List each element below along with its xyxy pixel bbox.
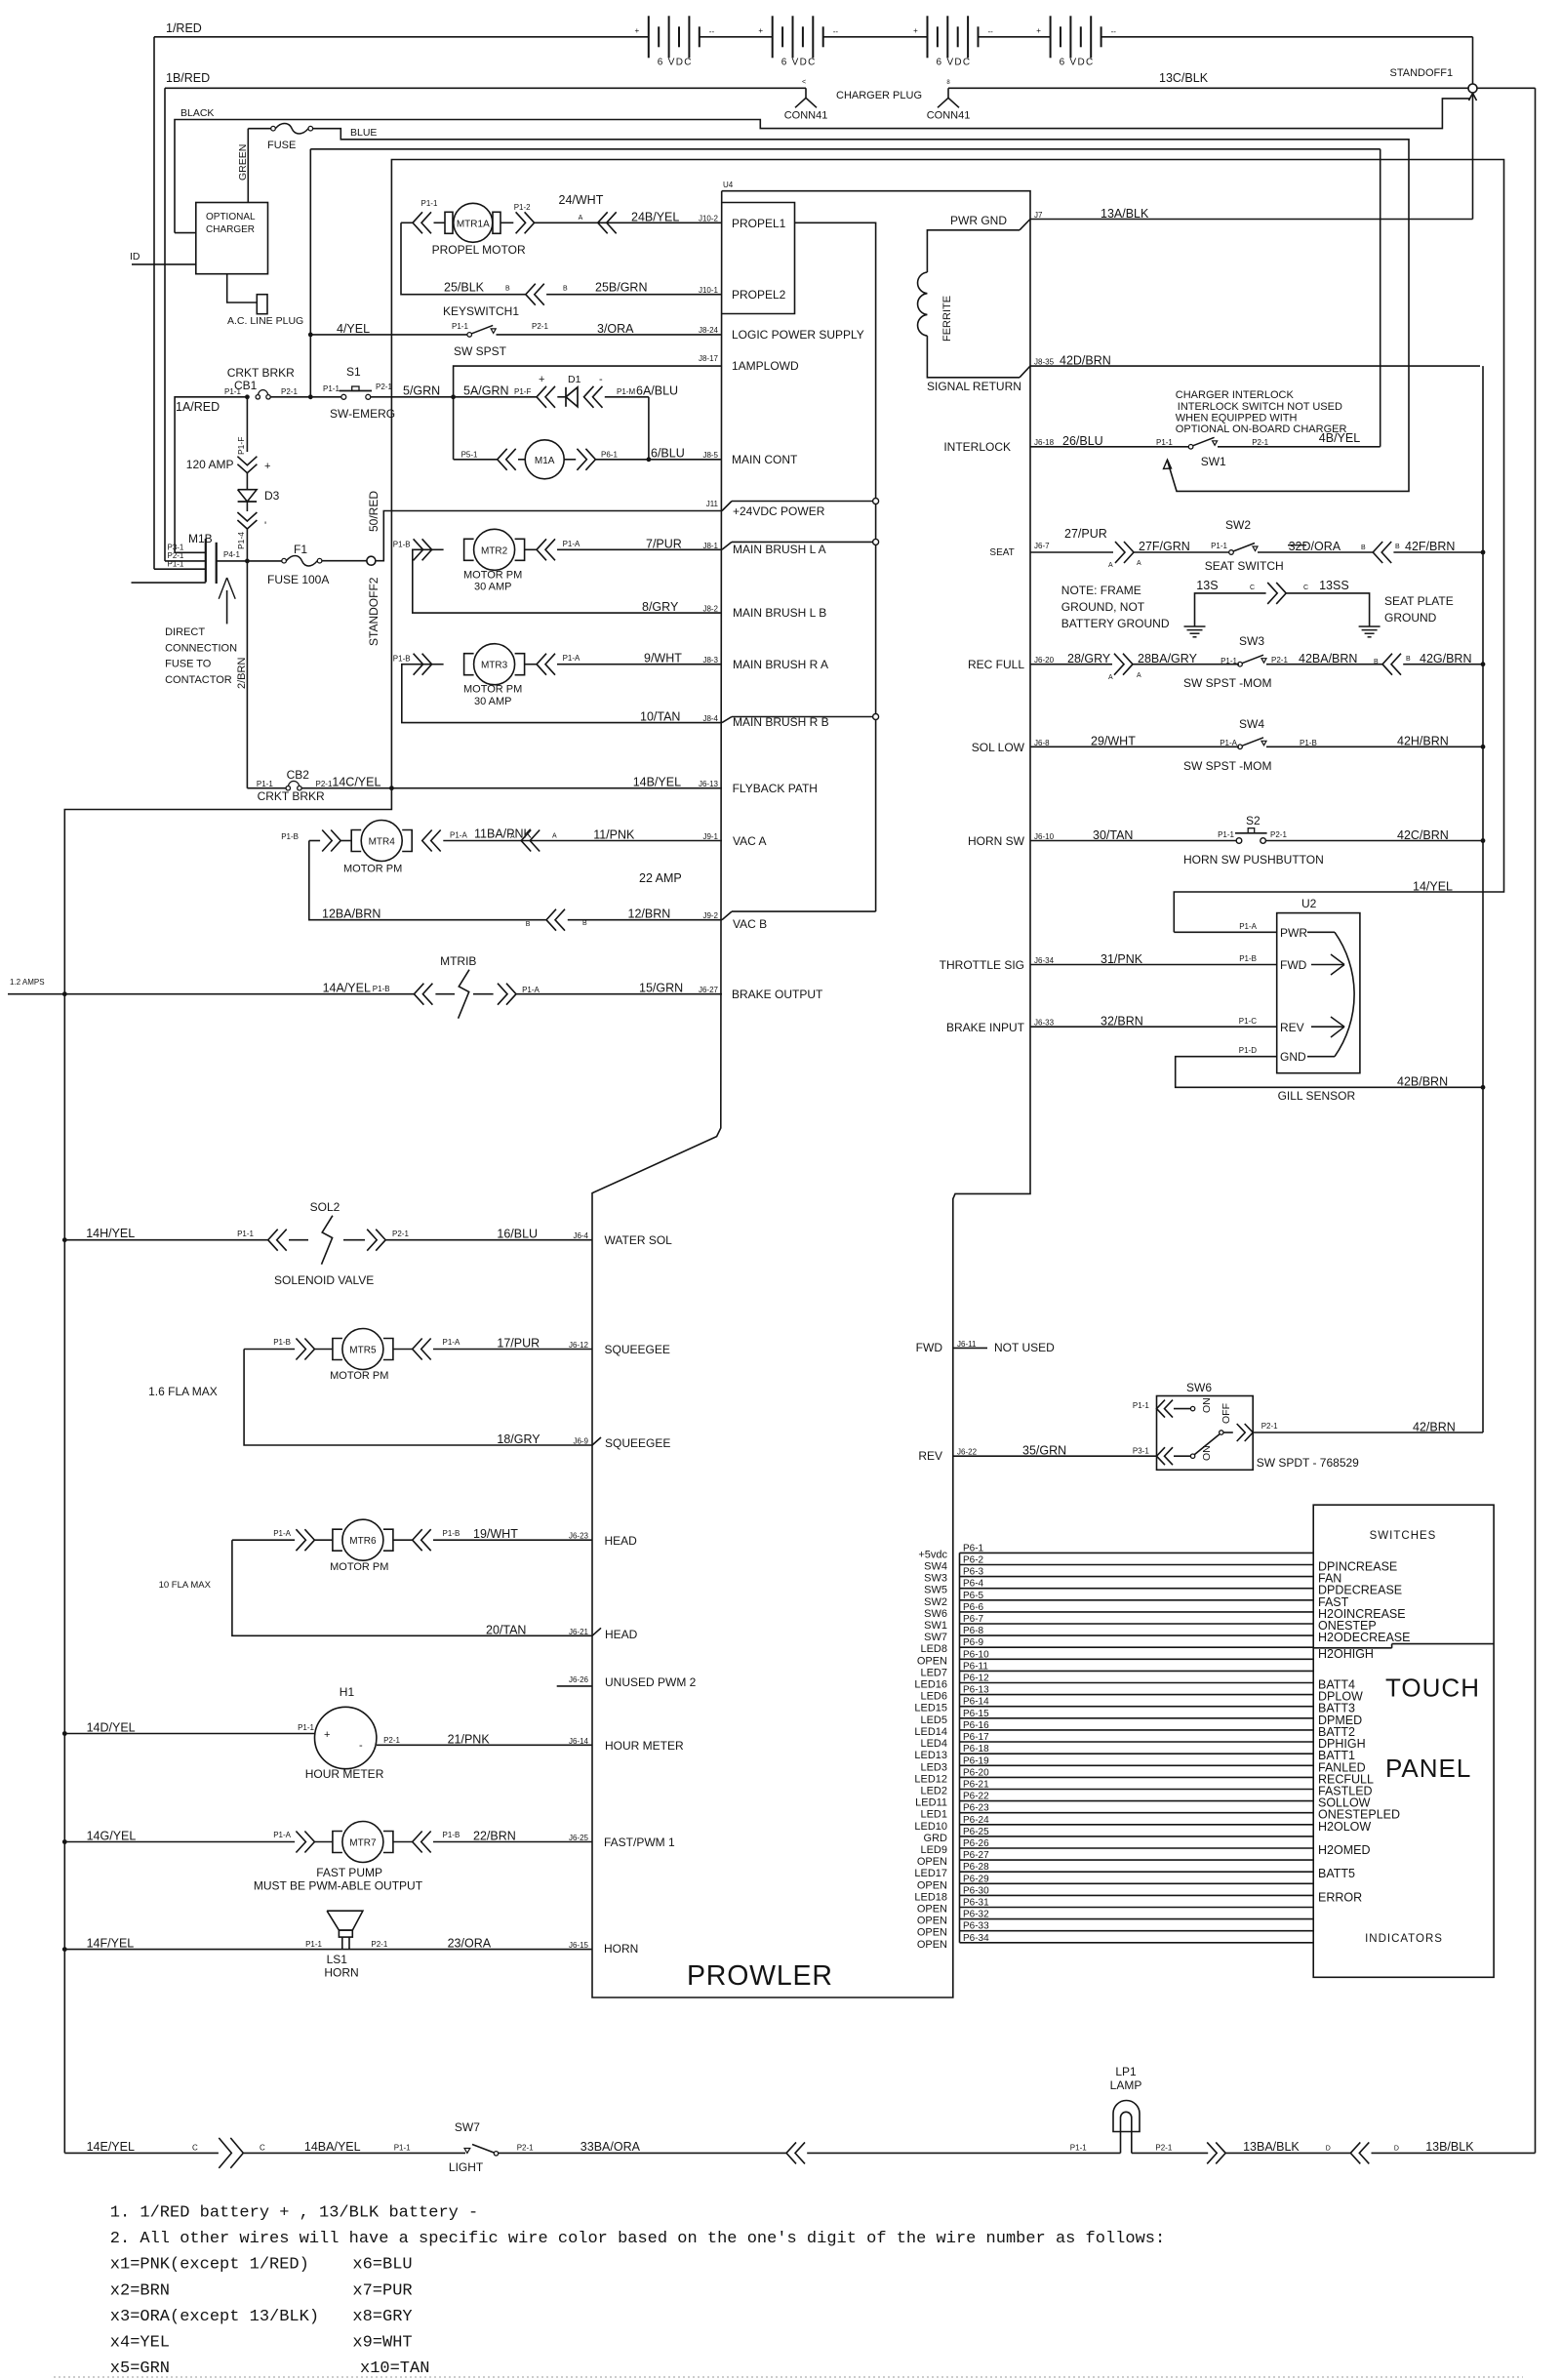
- switch SW6 lower ON contact: [1157, 1447, 1166, 1465]
- U2 FWD arrow: [1311, 964, 1344, 966]
- svg-text:A: A: [510, 833, 515, 840]
- svg-text:FAST PUMP: FAST PUMP: [316, 1866, 382, 1879]
- svg-text:6A/BLU: 6A/BLU: [636, 384, 678, 398]
- wire 13C/BLK: [948, 87, 1468, 89]
- svg-text:42F/BRN: 42F/BRN: [1405, 540, 1455, 553]
- pin P6-9 LED8: [960, 1646, 1314, 1648]
- wire 25/BLK loop: [401, 222, 526, 294]
- page border dotted bottom: [54, 2376, 1523, 2378]
- svg-text:MUST BE PWM-ABLE OUTPUT: MUST BE PWM-ABLE OUTPUT: [254, 1879, 423, 1893]
- switch KEYSWITCH1: [310, 334, 467, 336]
- svg-text:GRD: GRD: [924, 1833, 948, 1844]
- sensor U2 GILL SENSOR: [1277, 913, 1360, 1073]
- svg-text:P6-9: P6-9: [963, 1637, 984, 1648]
- svg-text:P6-18: P6-18: [963, 1744, 989, 1755]
- svg-text:SW7: SW7: [924, 1632, 947, 1643]
- svg-text:J6-26: J6-26: [569, 1675, 589, 1684]
- svg-text:LAMP: LAMP: [1110, 2078, 1142, 2092]
- svg-text:C: C: [260, 2144, 265, 2153]
- svg-text:P6-22: P6-22: [963, 1792, 989, 1802]
- wire 13B/BLK right edge vertical: [1535, 88, 1537, 2153]
- svg-text:J7: J7: [1034, 211, 1043, 220]
- svg-text:SW SPST -MOM: SW SPST -MOM: [1183, 759, 1271, 773]
- svg-text:MAIN BRUSH R A: MAIN BRUSH R A: [733, 658, 828, 671]
- svg-text:MAIN BRUSH L A: MAIN BRUSH L A: [733, 543, 826, 556]
- svg-text:P2-1: P2-1: [517, 2144, 534, 2153]
- svg-text:42BA/BRN: 42BA/BRN: [1299, 652, 1357, 666]
- svg-text:A: A: [1108, 674, 1113, 681]
- svg-text:P6-13: P6-13: [963, 1685, 989, 1696]
- svg-text:P6-30: P6-30: [963, 1885, 989, 1896]
- svg-text:J8-3: J8-3: [702, 656, 718, 665]
- wire 7/PUR: [557, 548, 722, 550]
- svg-text:NOT USED: NOT USED: [994, 1341, 1055, 1354]
- svg-text:P1-A: P1-A: [522, 986, 540, 994]
- svg-text:PROPEL1: PROPEL1: [732, 217, 786, 230]
- connector chevron B on 12 line: [546, 909, 556, 931]
- pin P6-8 SW7: [960, 1634, 1314, 1636]
- svg-text:24/WHT: 24/WHT: [559, 193, 604, 207]
- battery BT2 6 VDC: [772, 16, 774, 58]
- svg-text:P1-B: P1-B: [281, 832, 299, 841]
- svg-text:P1-1: P1-1: [1221, 657, 1237, 666]
- motor MTR3: [422, 654, 432, 675]
- wire 24/WHT: [535, 222, 722, 223]
- svg-text:HEAD: HEAD: [605, 1534, 638, 1548]
- battery BT3 6 VDC: [927, 16, 929, 58]
- svg-text:SOL LOW: SOL LOW: [972, 741, 1025, 754]
- pin J11 +24VDC POWER: [391, 510, 722, 512]
- svg-text:THROTTLE SIG: THROTTLE SIG: [940, 958, 1024, 972]
- svg-text:LED7: LED7: [920, 1667, 947, 1678]
- svg-text:6 VDC: 6 VDC: [937, 57, 972, 67]
- svg-text:SIGNAL RETURN: SIGNAL RETURN: [927, 380, 1021, 393]
- svg-text:SW SPDT - 768529: SW SPDT - 768529: [1257, 1456, 1359, 1470]
- svg-text:B: B: [582, 920, 587, 927]
- pin P6-3 SW3: [960, 1576, 1314, 1578]
- U2 REV arrow: [1311, 1026, 1344, 1028]
- svg-text:P6-1: P6-1: [963, 1543, 984, 1553]
- svg-text:SEAT SWITCH: SEAT SWITCH: [1205, 559, 1284, 573]
- svg-text:28/GRY: 28/GRY: [1067, 652, 1111, 666]
- svg-text:C: C: [192, 2144, 198, 2153]
- wire CB2 feed: [247, 787, 285, 789]
- wire MTR4 loop / 12BA/BRN: [309, 841, 546, 920]
- svg-text:--: --: [988, 27, 994, 36]
- svg-text:P2-1: P2-1: [1252, 438, 1268, 447]
- svg-text:ERROR: ERROR: [1318, 1890, 1362, 1904]
- svg-text:P1-1: P1-1: [257, 780, 273, 788]
- svg-text:P2-1: P2-1: [1261, 1422, 1278, 1431]
- svg-text:CB2: CB2: [287, 768, 310, 782]
- svg-text:P6-6: P6-6: [963, 1602, 984, 1613]
- svg-text:FUSE TO: FUSE TO: [165, 659, 212, 670]
- svg-text:17/PUR: 17/PUR: [497, 1337, 540, 1351]
- svg-text:INDICATORS: INDICATORS: [1365, 1933, 1443, 1945]
- charger block OPTIONAL CHARGER: [196, 203, 268, 274]
- svg-text:C: C: [1250, 585, 1255, 591]
- svg-text:LED1: LED1: [920, 1809, 947, 1821]
- svg-text:CONNECTION: CONNECTION: [165, 642, 237, 654]
- svg-text:4B/YEL: 4B/YEL: [1319, 431, 1360, 445]
- pin P6-21 LED2: [960, 1789, 1314, 1791]
- wire 13SS to seat plate ground: [1286, 593, 1369, 624]
- svg-text:LED9: LED9: [920, 1844, 947, 1856]
- svg-text:P1-C: P1-C: [1239, 1017, 1257, 1026]
- svg-text:P1-A: P1-A: [273, 1831, 291, 1839]
- svg-text:P1-A: P1-A: [443, 1338, 460, 1347]
- svg-text:3/ORA: 3/ORA: [597, 322, 634, 336]
- svg-text:+: +: [634, 26, 639, 35]
- svg-text:14C/YEL: 14C/YEL: [332, 776, 380, 789]
- svg-text:+: +: [913, 26, 918, 35]
- switch SW6 box: [1157, 1396, 1254, 1471]
- svg-text:SW2: SW2: [924, 1596, 947, 1608]
- svg-text:P6-19: P6-19: [963, 1755, 989, 1766]
- hour meter H1: [315, 1707, 377, 1768]
- svg-text:LIGHT: LIGHT: [449, 2160, 484, 2174]
- svg-text:x6=BLU: x6=BLU: [352, 2256, 412, 2275]
- svg-text:MTR6: MTR6: [349, 1536, 377, 1547]
- pin P6-33 OPEN: [960, 1930, 1314, 1932]
- wire U2 GND / 42B/BRN: [1176, 1057, 1483, 1088]
- switch SW6 upper ON contact: [1157, 1400, 1166, 1418]
- svg-text:P6-27: P6-27: [963, 1850, 989, 1861]
- switch SW7 light: [464, 2149, 470, 2154]
- svg-text:P1-1: P1-1: [1070, 2144, 1087, 2153]
- svg-text:SW7: SW7: [455, 2120, 480, 2134]
- motor MTR1A propel motor: [401, 222, 413, 223]
- svg-text:STANDOFF2: STANDOFF2: [367, 577, 380, 646]
- svg-text:P6-21: P6-21: [963, 1780, 989, 1791]
- pin P6-30 LED18: [960, 1894, 1314, 1896]
- svg-text:--: --: [833, 27, 839, 36]
- standoff STANDOFF2: [367, 556, 376, 565]
- svg-text:OPEN: OPEN: [917, 1904, 947, 1916]
- svg-text:1. 1/RED battery + , 13/BLK b: 1. 1/RED battery + , 13/BLK battery -: [110, 2204, 478, 2223]
- wire 25B/GRN: [546, 294, 722, 296]
- svg-text:12/BRN: 12/BRN: [628, 908, 671, 921]
- svg-text:4/YEL: 4/YEL: [337, 322, 370, 336]
- wire 17/PUR: [433, 1349, 592, 1351]
- svg-text:J6-33: J6-33: [1034, 1019, 1055, 1028]
- svg-text:HOUR METER: HOUR METER: [605, 1739, 684, 1753]
- pin P6-6 SW6: [960, 1611, 1314, 1613]
- pin J6-20 REC FULL: [1030, 664, 1112, 666]
- svg-text:26/BLU: 26/BLU: [1062, 434, 1103, 448]
- svg-text:A: A: [552, 833, 557, 840]
- wire 13A/BLK vertical from STANDOFF1: [1472, 93, 1474, 220]
- pin P6-26 LED9: [960, 1847, 1314, 1849]
- svg-text:23/ORA: 23/ORA: [448, 1937, 492, 1951]
- svg-text:P6-10: P6-10: [963, 1649, 989, 1660]
- svg-text:P6-14: P6-14: [963, 1697, 989, 1708]
- svg-text:14F/YEL: 14F/YEL: [87, 1936, 135, 1950]
- svg-text:A: A: [1137, 672, 1141, 679]
- svg-text:SW1: SW1: [1201, 455, 1226, 468]
- svg-text:H2ODECREASE: H2ODECREASE: [1318, 1631, 1410, 1644]
- svg-text:J6-15: J6-15: [569, 1941, 589, 1950]
- svg-text:SOL2: SOL2: [310, 1200, 340, 1214]
- svg-text:LED16: LED16: [914, 1679, 947, 1691]
- ferrite FERRITE block: [927, 230, 1020, 272]
- pin P6-13 LED6: [960, 1694, 1314, 1696]
- wire battery+ down to STANDOFF1: [1472, 37, 1474, 84]
- svg-text:P1-1: P1-1: [1211, 542, 1227, 550]
- svg-text:22/BRN: 22/BRN: [473, 1830, 516, 1843]
- pin P6-4 SW5: [960, 1588, 1314, 1590]
- svg-text:28BA/GRY: 28BA/GRY: [1138, 652, 1198, 666]
- svg-text:P2-1: P2-1: [1271, 656, 1288, 665]
- pin J6-34 THROTTLE SIG: [1030, 964, 1277, 966]
- svg-text:LED17: LED17: [914, 1868, 947, 1879]
- svg-text:REV: REV: [918, 1449, 942, 1463]
- svg-text:WATER SOL: WATER SOL: [605, 1233, 673, 1247]
- svg-text:J8-24: J8-24: [699, 326, 719, 335]
- svg-text:LOGIC POWER SUPPLY: LOGIC POWER SUPPLY: [732, 328, 864, 342]
- U2 internal arc: [1307, 931, 1335, 933]
- svg-text:INTERLOCK: INTERLOCK: [943, 440, 1011, 454]
- svg-text:J8-1: J8-1: [702, 542, 718, 550]
- svg-text:J9-2: J9-2: [702, 911, 718, 920]
- pin J7 PWR GND: [1030, 219, 1473, 221]
- pin J6-33 BRAKE INPUT: [1030, 1026, 1277, 1028]
- svg-text:MOTOR PM: MOTOR PM: [343, 864, 402, 875]
- svg-text:PROPEL MOTOR: PROPEL MOTOR: [432, 243, 526, 257]
- svg-text:J6-25: J6-25: [569, 1834, 589, 1842]
- svg-text:10/TAN: 10/TAN: [640, 710, 680, 724]
- svg-text:CHARGER PLUG: CHARGER PLUG: [836, 90, 922, 101]
- svg-text:A: A: [1137, 560, 1141, 567]
- svg-text:FAST/PWM 1: FAST/PWM 1: [604, 1835, 675, 1849]
- svg-text:P2-1: P2-1: [371, 1940, 387, 1949]
- svg-text:P1-B: P1-B: [1300, 739, 1317, 747]
- svg-text:INTERLOCK SWITCH NOT USED: INTERLOCK SWITCH NOT USED: [1178, 401, 1342, 413]
- wire 6/BLU: [595, 459, 722, 461]
- svg-text:P1-A: P1-A: [273, 1529, 291, 1538]
- svg-text:UNUSED PWM 2: UNUSED PWM 2: [605, 1675, 697, 1689]
- svg-text:24B/YEL: 24B/YEL: [631, 211, 679, 224]
- svg-text:P1-1: P1-1: [421, 199, 438, 208]
- wire 50/RED: [376, 511, 391, 561]
- pin P6-31 OPEN: [960, 1907, 1314, 1909]
- svg-text:LS1: LS1: [327, 1953, 348, 1966]
- svg-text:LED6: LED6: [920, 1691, 947, 1703]
- svg-text:MOTOR PM: MOTOR PM: [330, 1561, 388, 1573]
- svg-text:27/PUR: 27/PUR: [1064, 527, 1107, 541]
- touch panel box: [1313, 1505, 1494, 1977]
- connector chevron 13S: [1276, 583, 1286, 604]
- fuse F1 FUSE 100A: [282, 558, 287, 563]
- svg-text:P6-26: P6-26: [963, 1838, 989, 1849]
- pin P6-10 OPEN: [960, 1658, 1314, 1660]
- wire stub below M1B: [132, 582, 206, 584]
- svg-text:P1-A: P1-A: [563, 540, 580, 548]
- svg-text:B: B: [505, 286, 510, 293]
- svg-text:14E/YEL: 14E/YEL: [87, 2140, 135, 2154]
- motor MTR5: [244, 1349, 295, 1351]
- svg-text:P6-25: P6-25: [963, 1827, 989, 1837]
- contactor M1A: [454, 459, 498, 461]
- svg-text:P1-1: P1-1: [1218, 830, 1234, 839]
- svg-text:2. All other wires will have a: 2. All other wires will have a specific …: [110, 2230, 1165, 2248]
- svg-text:U2: U2: [1301, 897, 1317, 910]
- wire 14H/YEL: [64, 1239, 267, 1241]
- svg-text:1.6 FLA MAX: 1.6 FLA MAX: [148, 1385, 218, 1398]
- svg-text:42H/BRN: 42H/BRN: [1397, 735, 1449, 748]
- svg-text:11/PNK: 11/PNK: [593, 828, 635, 842]
- svg-text:SW3: SW3: [1239, 634, 1264, 648]
- svg-text:MTR5: MTR5: [349, 1346, 377, 1356]
- svg-text:SW4: SW4: [924, 1561, 947, 1573]
- wire 14E/YEL bottom row: [64, 2152, 219, 2154]
- svg-text:J6-14: J6-14: [569, 1737, 589, 1746]
- pin J6-22 REV: [953, 1455, 1157, 1457]
- svg-text:25/BLK: 25/BLK: [444, 281, 485, 295]
- svg-text:SW SPST -MOM: SW SPST -MOM: [1183, 676, 1271, 690]
- svg-text:OPEN: OPEN: [917, 1916, 947, 1927]
- connector chevron 28BA: [1123, 654, 1133, 675]
- pin P6-7 SW1: [960, 1623, 1314, 1625]
- svg-text:P4-1: P4-1: [223, 550, 240, 559]
- svg-text:J10-2: J10-2: [699, 214, 719, 222]
- connector chevron 42F: [1373, 542, 1382, 563]
- svg-text:J6-22: J6-22: [957, 1448, 978, 1457]
- svg-text:5A/GRN: 5A/GRN: [463, 384, 509, 398]
- svg-text:32D/ORA: 32D/ORA: [1289, 540, 1341, 553]
- svg-text:MTRIB: MTRIB: [440, 954, 476, 968]
- svg-text:P1-M: P1-M: [617, 387, 635, 396]
- motor MTR6: [232, 1539, 295, 1541]
- svg-text:P6-2: P6-2: [963, 1555, 984, 1566]
- svg-text:6 VDC: 6 VDC: [1060, 57, 1095, 67]
- svg-text:14/YEL: 14/YEL: [1413, 879, 1453, 893]
- svg-text:+: +: [758, 26, 763, 35]
- svg-text:P6-28: P6-28: [963, 1862, 989, 1873]
- wire 1A/RED loop: [175, 397, 247, 553]
- switch SW6 common P2-1: [1220, 1431, 1223, 1434]
- svg-text:P2-1: P2-1: [1155, 2144, 1172, 2153]
- solenoid SOL2: [268, 1230, 278, 1251]
- battery BT4 6 VDC: [1050, 16, 1052, 58]
- svg-text:ID: ID: [130, 251, 140, 262]
- svg-text:PROWLER: PROWLER: [687, 1960, 833, 1992]
- svg-text:LED14: LED14: [914, 1726, 947, 1738]
- svg-text:P1-B: P1-B: [373, 985, 390, 993]
- svg-text:SEAT: SEAT: [989, 547, 1014, 558]
- svg-text:FLYBACK PATH: FLYBACK PATH: [733, 782, 818, 795]
- svg-text:ON: ON: [1201, 1397, 1213, 1413]
- svg-text:J6-9: J6-9: [573, 1437, 588, 1446]
- svg-text:HORN: HORN: [324, 1966, 358, 1980]
- svg-text:P6-29: P6-29: [963, 1874, 989, 1884]
- svg-text:VAC B: VAC B: [733, 917, 767, 931]
- connector CONN41 (charger side): [947, 88, 949, 98]
- wire 14F/YEL: [64, 1949, 592, 1951]
- svg-text:B: B: [563, 286, 568, 293]
- pin P6-15 LED5: [960, 1717, 1314, 1719]
- wire 42/BRN from SW6: [1253, 1432, 1483, 1433]
- wire 14G/YEL: [64, 1841, 295, 1843]
- svg-text:OPTIONAL: OPTIONAL: [206, 212, 256, 222]
- svg-text:13S: 13S: [1196, 579, 1218, 592]
- svg-text:+: +: [1036, 26, 1041, 35]
- switch SW1: [1188, 445, 1193, 450]
- svg-text:J6-20: J6-20: [1034, 656, 1055, 665]
- svg-text:J8-4: J8-4: [702, 714, 718, 723]
- svg-text:P1-1: P1-1: [305, 1940, 322, 1949]
- svg-text:BLUE: BLUE: [350, 127, 377, 139]
- svg-text:19/WHT: 19/WHT: [473, 1527, 518, 1541]
- svg-text:30/TAN: 30/TAN: [1093, 828, 1133, 842]
- svg-text:P1-B: P1-B: [1239, 954, 1257, 963]
- svg-text:P1-1: P1-1: [298, 1723, 314, 1732]
- svg-text:P6-32: P6-32: [963, 1910, 989, 1920]
- svg-text:LED5: LED5: [920, 1714, 947, 1726]
- svg-text:LED13: LED13: [914, 1750, 947, 1761]
- pin P6-28 LED17: [960, 1871, 1314, 1873]
- svg-text:D: D: [1326, 2146, 1331, 2153]
- breaker CB1 CRKT BRKR: [245, 394, 250, 399]
- svg-text:REC FULL: REC FULL: [968, 658, 1024, 671]
- block PROPEL1/PROPEL2 inside U4: [722, 203, 795, 314]
- svg-text:J6-21: J6-21: [569, 1628, 589, 1636]
- pin P6-12 LED16: [960, 1682, 1314, 1684]
- svg-text:6/BLU: 6/BLU: [651, 447, 685, 461]
- svg-text:FUSE 100A: FUSE 100A: [267, 573, 329, 586]
- svg-text:P1-1: P1-1: [1133, 1401, 1149, 1410]
- pin J6-7 SEAT: [1030, 551, 1113, 553]
- svg-text:SW SPST: SW SPST: [454, 344, 507, 358]
- svg-text:25B/GRN: 25B/GRN: [595, 281, 648, 295]
- svg-text:x1=PNK(except 1/RED): x1=PNK(except 1/RED): [110, 2256, 309, 2275]
- svg-text:SW3: SW3: [924, 1573, 947, 1585]
- svg-text:P1-1: P1-1: [323, 384, 340, 393]
- svg-text:MOTOR PM: MOTOR PM: [463, 684, 522, 696]
- svg-text:FUSE: FUSE: [267, 140, 296, 151]
- svg-text:x3=ORA(except 13/BLK): x3=ORA(except 13/BLK): [110, 2308, 319, 2326]
- svg-text:SEAT PLATE: SEAT PLATE: [1384, 594, 1454, 608]
- svg-text:P1-B: P1-B: [393, 540, 411, 548]
- lamp LP1: [1113, 2101, 1140, 2132]
- svg-text:P1-D: P1-D: [1239, 1046, 1257, 1055]
- svg-text:BRAKE OUTPUT: BRAKE OUTPUT: [732, 988, 823, 1001]
- svg-text:J9-1: J9-1: [702, 832, 718, 841]
- controller U4 outline: [592, 191, 1030, 1997]
- wire 12/BRN: [568, 919, 722, 921]
- svg-text:14BA/YEL: 14BA/YEL: [304, 2140, 361, 2154]
- svg-text:P2-1: P2-1: [383, 1736, 400, 1745]
- svg-text:CONN41: CONN41: [784, 109, 828, 121]
- pin P6-32 OPEN: [960, 1918, 1314, 1920]
- svg-text:LED8: LED8: [920, 1643, 947, 1655]
- svg-text:J6-7: J6-7: [1034, 542, 1050, 550]
- svg-text:P1-A: P1-A: [563, 654, 580, 663]
- svg-text:LED2: LED2: [920, 1786, 947, 1797]
- svg-text:J6-12: J6-12: [569, 1341, 589, 1350]
- svg-text:14A/YEL: 14A/YEL: [323, 982, 371, 995]
- wire net4 4/YEL-4B/YEL top run: [309, 149, 311, 398]
- svg-text:P2-1: P2-1: [281, 387, 298, 396]
- pin J6-10 HORN SW: [1030, 840, 1236, 842]
- svg-text:P6-12: P6-12: [963, 1674, 989, 1684]
- svg-text:P2-1: P2-1: [532, 322, 548, 331]
- svg-text:1.2 AMPS: 1.2 AMPS: [10, 978, 45, 987]
- svg-text:8/GRY: 8/GRY: [642, 600, 679, 614]
- ground seat plate ground: [1369, 624, 1371, 626]
- svg-text:14H/YEL: 14H/YEL: [86, 1227, 135, 1240]
- svg-text:P1-1: P1-1: [452, 322, 468, 331]
